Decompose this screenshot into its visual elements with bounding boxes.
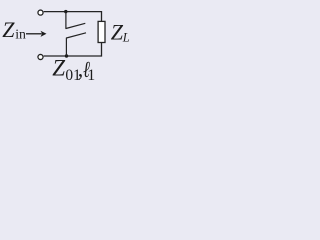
- transmission line upper conductor mark: [66, 12, 85, 29]
- svg-text:1: 1: [87, 67, 95, 84]
- resistor ZL box: [98, 21, 105, 42]
- wire top rail: [44, 12, 102, 22]
- background: [0, 0, 140, 87]
- wire bottom rail: [44, 43, 102, 57]
- svg-text:L: L: [122, 31, 130, 45]
- node dot bottom: [65, 54, 68, 57]
- svg-text:in: in: [15, 26, 26, 41]
- terminal bottom-left (open circle): [38, 54, 43, 59]
- terminal top-left (open circle): [38, 10, 43, 15]
- svg-text:Z: Z: [2, 17, 15, 42]
- node dot top: [64, 10, 67, 13]
- transmission line lower conductor mark: [66, 33, 86, 56]
- arrow Zin: [26, 33, 42, 35]
- svg-text:Z: Z: [52, 56, 65, 81]
